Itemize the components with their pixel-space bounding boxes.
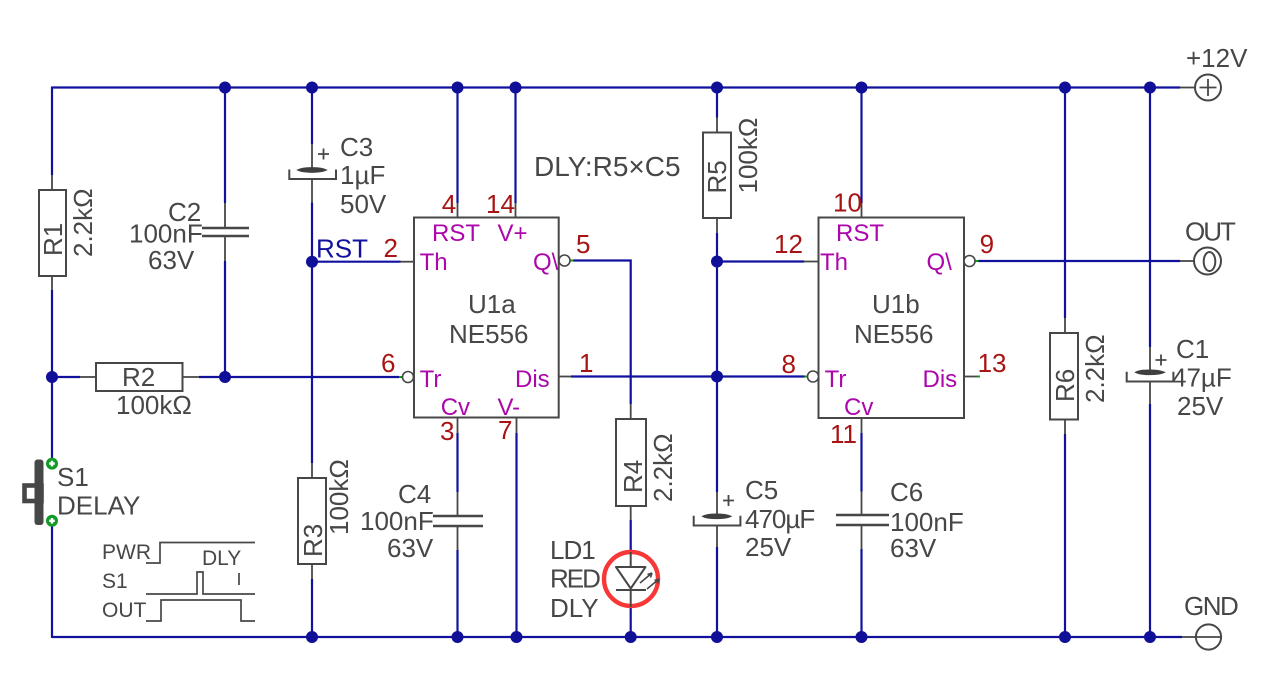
svg-text:11: 11 — [830, 419, 857, 449]
svg-text:R6: R6 — [1050, 369, 1080, 402]
svg-text:GND: GND — [1184, 591, 1238, 621]
wire pin13 green tip — [977, 376, 980, 378]
svg-text:+12V: +12V — [1186, 43, 1248, 73]
svg-text:DLY:R5×C5: DLY:R5×C5 — [534, 151, 681, 182]
wire pin6 green tip — [399, 376, 403, 378]
LED LD1 — [550, 535, 659, 623]
wire R5 to pin12 node — [716, 233, 718, 262]
svg-text:DELAY: DELAY — [57, 491, 140, 521]
svg-text:2.2kΩ: 2.2kΩ — [648, 433, 678, 502]
node S1 bottom pad — [46, 515, 58, 527]
wire pin9 green tip — [975, 260, 979, 262]
wire R6 bottom lead — [1064, 420, 1066, 435]
wire R3 bottom lead — [311, 564, 313, 579]
wire C1 column upper — [1149, 88, 1151, 348]
wire C3 bottom lead — [311, 179, 313, 203]
wire C3 column upper — [311, 88, 313, 145]
wire PWR waveform — [146, 543, 255, 564]
wire U1a pin1 Dis to U1b pin8 — [571, 375, 805, 377]
wire U1a pin3 to C4 — [456, 433, 458, 492]
svg-text:V+: V+ — [498, 220, 528, 247]
svg-text:OUT: OUT — [102, 599, 147, 622]
wire R5 bottom lead — [716, 218, 718, 233]
svg-text:C4: C4 — [398, 479, 431, 509]
wire R1 top lead — [51, 175, 53, 190]
svg-text:100kΩ: 100kΩ — [324, 459, 354, 535]
svg-text:25V: 25V — [1177, 391, 1224, 421]
wire left vertical R1 to node — [51, 290, 53, 377]
svg-text:100kΩ: 100kΩ — [116, 390, 192, 420]
svg-text:2: 2 — [384, 233, 398, 263]
wire R5 top lead — [716, 118, 718, 133]
wire R3 to GND rail — [311, 579, 313, 637]
wire R1 bottom lead — [51, 276, 53, 290]
svg-text:Dis: Dis — [515, 366, 550, 393]
resistor R4 — [616, 419, 678, 506]
wire U1a pin14 column — [514, 88, 516, 204]
wire pin5 green tip — [570, 260, 574, 262]
resistor R5 — [702, 118, 763, 218]
pin bubble Q U1a — [559, 255, 570, 266]
node RST/C3/Th — [306, 256, 318, 268]
wire C6 bottom lead — [861, 525, 863, 549]
wire U1a pin2 lead — [401, 261, 415, 263]
svg-text:Th: Th — [420, 249, 448, 276]
svg-text:PWR: PWR — [102, 541, 151, 564]
node R2/C2/Tr — [219, 371, 231, 383]
node bottom rail LED — [625, 631, 637, 643]
wire +12V terminal lead — [1180, 87, 1195, 89]
wire U1b pin10 lead — [861, 203, 863, 218]
svg-text:NE556: NE556 — [854, 319, 934, 349]
svg-text:25V: 25V — [745, 532, 792, 562]
wire R4 bottom lead — [630, 506, 632, 520]
wire R6 column lower — [1064, 434, 1066, 637]
wire node to S1 top — [51, 377, 53, 459]
wire U1b pin13 lead — [964, 376, 977, 378]
wire R6 column upper — [1064, 88, 1066, 319]
wire U1b pin9 Q to OUT — [978, 260, 1180, 262]
svg-text:5: 5 — [576, 229, 590, 259]
svg-text:U1b: U1b — [872, 289, 920, 319]
svg-text:Q\: Q\ — [927, 249, 953, 276]
wire C6 to GND rail — [860, 549, 862, 637]
node R1/R2/S1 — [46, 371, 58, 383]
wire C5 to GND rail — [716, 547, 718, 637]
svg-text:6: 6 — [381, 348, 395, 378]
svg-text:63V: 63V — [387, 533, 434, 563]
svg-text:C5: C5 — [745, 475, 778, 505]
pin bubble Tr U1a — [403, 372, 414, 383]
svg-text:S1: S1 — [102, 570, 128, 593]
wire C3 to RST node — [311, 203, 313, 262]
capacitor C1 (electrolytic) — [1127, 334, 1232, 421]
svg-text:9: 9 — [980, 229, 994, 259]
svg-text:63V: 63V — [890, 533, 937, 563]
wire LED to GND rail — [630, 607, 632, 637]
svg-text:100nF: 100nF — [360, 506, 434, 536]
wire R4 top lead — [630, 404, 632, 419]
wire U1a pin14 lead — [515, 203, 517, 218]
GRAY COMPONENT STUBS — [52, 88, 1196, 638]
wire U1a pin5 Q to R4 corner — [573, 261, 631, 405]
wire pin8 node down to C5 — [716, 377, 718, 493]
transistor S1 pushbutton — [25, 458, 141, 527]
GREEN PIN TIPS — [399, 261, 980, 378]
svg-text:S1: S1 — [57, 462, 89, 492]
resistor R2 — [96, 362, 192, 420]
wire C5 bottom lead — [716, 526, 718, 547]
svg-text:DLY: DLY — [202, 547, 241, 570]
capacitor C3 (electrolytic) — [289, 132, 387, 219]
wire R2 right lead — [183, 376, 200, 378]
resistor R1 — [38, 188, 98, 276]
node bottom rail R6 — [1059, 631, 1071, 643]
svg-text:Q\: Q\ — [533, 249, 559, 276]
svg-text:RST: RST — [432, 220, 480, 247]
wire DLY end tick — [238, 573, 240, 585]
wire U1a pin7 lead — [516, 418, 518, 433]
svg-text:R2: R2 — [122, 362, 155, 392]
svg-text:NE556: NE556 — [449, 319, 529, 349]
svg-text:50V: 50V — [340, 189, 387, 219]
node bottom rail C1 — [1144, 631, 1156, 643]
wire U1b pin10 column — [860, 88, 862, 204]
wire U1a pin3 lead — [457, 418, 459, 433]
wire C5 top lead — [716, 492, 718, 514]
wire pin8 green tip — [805, 376, 809, 378]
svg-text:8: 8 — [782, 349, 796, 379]
wire C1 column lower — [1149, 404, 1151, 637]
wire R3 top lead — [311, 463, 313, 478]
svg-text:OUT: OUT — [1185, 217, 1236, 247]
node bottom rail C4 — [452, 631, 464, 643]
node Dis/pin8/C5 — [711, 371, 723, 383]
svg-text:12: 12 — [774, 229, 803, 259]
wire C2 column upper — [224, 88, 226, 204]
wire OUT terminal lead — [1180, 260, 1194, 262]
svg-text:RST: RST — [316, 234, 368, 264]
svg-text:Dis: Dis — [923, 366, 958, 393]
svg-text:10: 10 — [833, 188, 862, 218]
svg-text:LD1: LD1 — [550, 535, 595, 565]
timing diagram — [146, 543, 255, 622]
wire C2 top lead — [224, 203, 226, 228]
svg-text:RED: RED — [550, 564, 600, 594]
wire U1b pin12 lead — [804, 261, 819, 263]
wire R2 node row to U1a pin6 — [225, 376, 399, 378]
svg-text:2.2kΩ: 2.2kΩ — [1080, 334, 1110, 403]
resistor R3 — [298, 459, 354, 564]
svg-text:Th: Th — [820, 249, 848, 276]
wire OUT waveform — [146, 600, 255, 621]
svg-text:14: 14 — [486, 189, 515, 219]
node R5/pin12 — [711, 256, 723, 268]
wire U1a pin4 column — [456, 88, 458, 204]
node top rail C3 — [306, 82, 318, 94]
wire S1 bottom to GND rail — [51, 525, 53, 638]
svg-text:Cv: Cv — [844, 394, 873, 421]
wire C4 to GND rail — [456, 550, 458, 637]
svg-text:R4: R4 — [618, 460, 648, 493]
capacitor C4 — [360, 479, 483, 563]
wire R4 to LED — [630, 520, 632, 552]
svg-text:100kΩ: 100kΩ — [733, 118, 763, 194]
svg-text:1µF: 1µF — [340, 160, 385, 190]
wire U1a pin1 lead — [559, 376, 571, 378]
wire C1 bottom lead — [1149, 382, 1151, 405]
node OUT terminal — [1185, 217, 1236, 275]
wire S1 waveform — [146, 572, 255, 594]
wire left vertical upper (to R1) — [51, 87, 53, 176]
wire C4 bottom lead — [457, 526, 459, 550]
svg-text:Tr: Tr — [825, 366, 847, 393]
capacitor C2 — [129, 197, 249, 275]
wire pin12 node to U1b pin12 — [717, 260, 804, 262]
resistor R6 — [1050, 333, 1110, 420]
svg-text:47µF: 47µF — [1172, 363, 1232, 393]
node bottom rail R3 — [306, 631, 318, 643]
pin bubble Tr U1b — [808, 371, 819, 382]
wire bottom GND rail — [52, 636, 1182, 638]
wire U1b pin11 lead — [861, 418, 863, 433]
svg-text:DLY: DLY — [550, 593, 599, 623]
svg-text:R5: R5 — [702, 160, 732, 193]
svg-text:470µF: 470µF — [745, 504, 814, 534]
node top rail pin14 — [510, 82, 522, 94]
svg-text:3: 3 — [440, 416, 454, 446]
svg-text:4: 4 — [442, 189, 456, 219]
svg-text:7: 7 — [498, 415, 512, 445]
svg-text:13: 13 — [978, 348, 1007, 378]
wire C1 top lead — [1149, 347, 1151, 370]
svg-text:RST: RST — [836, 220, 884, 247]
wire C4 top lead — [457, 492, 459, 516]
wire R2 left — [52, 376, 80, 378]
wire R2 left lead — [80, 376, 96, 378]
pin bubble Q U1b — [964, 256, 975, 267]
node top rail pin10 — [856, 82, 868, 94]
svg-text:C6: C6 — [890, 477, 923, 507]
op-amp U1b (timer NE556 half) — [774, 188, 1007, 450]
svg-text:2.2kΩ: 2.2kΩ — [68, 188, 98, 257]
svg-text:Tr: Tr — [420, 366, 442, 393]
node top rail pin4 — [452, 82, 464, 94]
wire U1a pin4 lead — [457, 203, 459, 218]
svg-text:R1: R1 — [38, 223, 68, 256]
ground GND terminal — [1184, 591, 1238, 650]
wire C2 bottom lead — [224, 236, 226, 261]
op-amp U1a (timer NE556 half) — [381, 189, 593, 446]
wire R2 right — [199, 376, 225, 378]
node top rail C2 — [219, 82, 231, 94]
svg-text:U1a: U1a — [468, 289, 516, 319]
svg-text:1: 1 — [579, 348, 593, 378]
svg-text:C1: C1 — [1176, 334, 1209, 364]
wire R6 top lead — [1064, 318, 1066, 333]
node bottom rail pin7 — [511, 631, 523, 643]
capacitor C6 — [836, 477, 964, 563]
svg-text:100nF: 100nF — [129, 219, 203, 249]
svg-text:C3: C3 — [340, 132, 373, 162]
node bottom rail C6 — [856, 631, 868, 643]
node top rail R5 — [711, 82, 723, 94]
node +12V terminal — [1186, 43, 1248, 101]
wire pin12 node down to pin8 node — [716, 262, 718, 377]
wire C6 top lead — [861, 492, 863, 516]
wire GND terminal lead — [1182, 636, 1196, 638]
capacitor C5 (electrolytic) — [694, 475, 815, 562]
node top rail C1 — [1144, 82, 1156, 94]
wire C2 column lower — [224, 261, 226, 377]
node bottom rail C5 — [711, 631, 723, 643]
wire RST node down to R3 — [311, 262, 313, 463]
wire U1b pin11 to C6 — [860, 433, 862, 492]
wire R5 column top — [716, 88, 718, 118]
svg-text:63V: 63V — [148, 245, 195, 275]
wire top +12V rail — [52, 86, 1180, 88]
wire C3 top lead — [311, 144, 313, 168]
node top rail R6 — [1059, 82, 1071, 94]
wire Th net node to U1a pin2 — [312, 261, 401, 263]
wire U1a pin7 to GND rail — [515, 433, 517, 637]
node S1 top pad — [46, 458, 58, 470]
